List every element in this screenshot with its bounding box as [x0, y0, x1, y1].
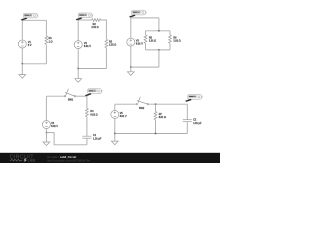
- resistor R6: [169, 35, 172, 44]
- label C1 value: [93, 134, 102, 140]
- ammeter probe U2: [76, 13, 93, 20]
- ammeter probe U3: [129, 10, 146, 17]
- voltage source V5: [111, 110, 119, 118]
- wire: C1 ground stem: [21, 64, 23, 75]
- label V5 value: [120, 112, 127, 118]
- svg-text:1.01 µF: 1.01 µF: [93, 137, 102, 140]
- label R7 value: [159, 113, 166, 119]
- label V1 value: [28, 41, 32, 47]
- resistor R5: [144, 35, 147, 44]
- wire: C2 top right segment: [101, 20, 107, 39]
- probe clip wedge C1: [21, 18, 28, 21]
- wire: C3 right branch bottom stub: [169, 44, 171, 50]
- wire: C4 left vertical: [45, 96, 47, 120]
- wire: C5 middle branch top: [155, 104, 157, 111]
- node junction C5 bottom left: [114, 133, 116, 135]
- svg-text:8.01 Ω: 8.01 Ω: [159, 116, 166, 119]
- voltage source V1: [18, 40, 26, 48]
- wire: C5 ground stem: [114, 134, 116, 142]
- svg-text:1 Ω: 1 Ω: [49, 40, 53, 43]
- capacitor C1: [82, 136, 91, 138]
- wire: C3 top horizontal: [131, 17, 159, 19]
- switch SW1: [64, 89, 75, 97]
- wire: C4 source bottom to junction: [45, 129, 47, 133]
- svg-text:8.01 V: 8.01 V: [120, 115, 127, 118]
- probe clip wedge C3: [129, 15, 136, 18]
- svg-text:LAB: LAB: [28, 159, 36, 163]
- wire: C4 bottom jog: [46, 133, 87, 145]
- wire: C3 left branch top stub: [145, 31, 147, 35]
- node junction C2: [77, 68, 79, 70]
- wire: C5 middle branch bottom: [155, 120, 157, 134]
- probe clip wedge C5: [185, 99, 192, 102]
- wire: C3 right branch top stub: [169, 31, 171, 35]
- resistor R3: [105, 39, 108, 48]
- svg-text:http://circuitlab.com/c/957688: http://circuitlab.com/c/9576880b74w: [47, 158, 90, 162]
- label R4 value: [90, 110, 97, 116]
- node junction C5 bottom middle: [155, 133, 157, 135]
- ammeter probe U4: [85, 89, 102, 96]
- ground (C4): [43, 142, 50, 146]
- wire: C2 right vertical bottom: [105, 48, 107, 69]
- ammeter probe U1: [21, 13, 38, 20]
- node junction C1: [22, 63, 24, 64]
- ground (C5): [111, 141, 118, 145]
- label R5 value: [149, 36, 156, 42]
- wire: C5 capacitor to bottom corner: [186, 122, 188, 134]
- wire: C5 bottom horizontal: [115, 133, 188, 135]
- wire: C5 right vertical top: [186, 104, 188, 120]
- wire: C3 down from bottom rail: [158, 50, 160, 67]
- node junction C3 top: [158, 30, 160, 32]
- probe clip wedge C2: [76, 17, 83, 20]
- wire: C5 left vertical: [114, 104, 116, 110]
- wire: C2 source bottom to junction: [77, 49, 79, 69]
- wire: C2 bottom horizontal: [78, 68, 106, 70]
- wire: C2 left vertical: [77, 20, 79, 40]
- ground (C2): [75, 79, 82, 83]
- svg-text:2.01 Ω: 2.01 Ω: [173, 40, 180, 43]
- svg-text:SW2: SW2: [139, 107, 145, 110]
- wire: C1 source bottom to junction: [21, 48, 23, 63]
- wire: C5 switch to junction and right corner: [149, 103, 188, 105]
- wire: C1 bottom horizontal: [22, 63, 46, 65]
- label V4 value: [51, 122, 58, 128]
- wire: C3 ground stem: [130, 67, 132, 72]
- wire: C4 switch to top-right corner: [76, 95, 87, 97]
- label R6 value: [173, 36, 180, 42]
- svg-text:2.01 Ω: 2.01 Ω: [149, 40, 156, 43]
- label V3 value: [136, 40, 143, 46]
- resistor R1: [45, 36, 48, 45]
- wire: C1 right vertical top: [45, 20, 47, 36]
- wire: C2 ground stem: [77, 69, 79, 79]
- voltage source V2: [74, 41, 82, 49]
- wire: C4 resistor to capacitor: [86, 117, 88, 136]
- wire: C3 parallel bottom rail: [146, 49, 171, 51]
- wire: C3 left vertical top: [130, 18, 132, 38]
- svg-text:2.01 Ω: 2.01 Ω: [109, 44, 116, 47]
- svg-text:8.01 V: 8.01 V: [84, 45, 91, 48]
- wire: C4 ground stem: [45, 133, 47, 142]
- svg-text:8.01 V: 8.01 V: [51, 125, 58, 128]
- label R3 value: [109, 41, 116, 47]
- resistor R7: [154, 111, 157, 120]
- wire: C1 left vertical (top corner to source top): [21, 20, 23, 39]
- wire: C3 source bottom to junction: [130, 46, 132, 67]
- svg-text:SW1: SW1: [68, 99, 74, 102]
- svg-text:8.01 V: 8.01 V: [136, 43, 143, 46]
- wire: C3 bottom horizontal: [131, 66, 159, 68]
- wire: C5 source bottom to junction: [114, 118, 116, 133]
- svg-text:8.01 Ω: 8.01 Ω: [90, 113, 97, 116]
- probe clip wedge C4: [85, 93, 92, 96]
- watermark bar background: [0, 153, 220, 163]
- node junction C3 bottom: [158, 49, 160, 51]
- node junction C3 left: [130, 66, 132, 68]
- node junction C5 top: [155, 103, 157, 105]
- svg-text:bernal42 / Lab8_Circuit: bernal42 / Lab8_Circuit: [47, 155, 76, 159]
- voltage source V4: [42, 121, 50, 129]
- wire: C3 feed down to parallel top rail: [158, 18, 160, 31]
- ammeter probe U5: [185, 95, 202, 102]
- wire: C4 capacitor to bottom: [86, 138, 88, 145]
- wire: C4 right vertical top: [86, 96, 88, 108]
- svg-text:2.01 Ω: 2.01 Ω: [91, 26, 98, 29]
- wire: C2 top-left corner to resistor R2: [78, 19, 92, 21]
- ground (C3): [127, 72, 134, 76]
- wire: C4 top-left corner to switch: [46, 95, 64, 97]
- label V2 value: [84, 42, 91, 48]
- voltage source V3: [127, 38, 135, 46]
- node junction C4: [46, 132, 48, 134]
- label R1 value: [49, 37, 53, 43]
- resistor R4: [86, 108, 89, 117]
- resistor R2 (horizontal): [92, 19, 101, 22]
- CircuitLab logo text: [10, 155, 36, 163]
- ground (C1): [19, 75, 26, 79]
- wire: C3 parallel top rail: [146, 30, 171, 32]
- wire: C3 left branch bottom stub: [145, 44, 147, 50]
- switch SW2: [136, 97, 148, 105]
- label R2 value: [91, 23, 98, 29]
- svg-text:1.01 µF: 1.01 µF: [193, 122, 202, 125]
- wire: C1 top horizontal: [22, 19, 46, 21]
- capacitor C2: [183, 120, 192, 122]
- wire: C1 right vertical bottom: [45, 45, 47, 64]
- wire: C5 top-left corner to switch: [115, 103, 136, 105]
- label C2 value: [193, 119, 202, 125]
- svg-text:5 V: 5 V: [28, 44, 32, 47]
